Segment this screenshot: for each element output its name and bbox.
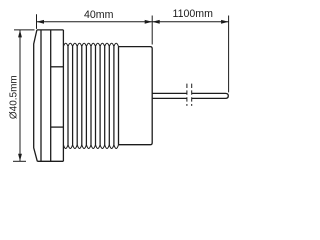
thread crest bottom zigzag — [63, 145, 118, 149]
groove bottom line — [51, 126, 64, 128]
face right edge — [40, 30, 42, 161]
thread crest top zigzag — [63, 43, 118, 46]
arrowhead bottom of diameter dim — [18, 154, 22, 162]
cable break dashed lines — [187, 84, 192, 106]
arrowhead right of 1100mm — [221, 20, 229, 24]
block top edge — [37, 29, 64, 31]
dim extension line at face left — [36, 14, 38, 29]
svg-text:Ø40.5mm: Ø40.5mm — [8, 75, 19, 119]
dim extension line at body right — [151, 16, 153, 45]
rear body — [119, 47, 153, 145]
collar right edge — [50, 30, 52, 161]
block right edge / thread start — [62, 30, 64, 161]
svg-text:1100mm: 1100mm — [172, 8, 213, 20]
dim extension line at cable end — [228, 16, 230, 93]
svg-text:40mm: 40mm — [84, 9, 114, 21]
diameter dim extension top — [14, 29, 35, 31]
arrowhead left of 40mm — [37, 20, 45, 24]
diameter dimension line — [19, 30, 21, 161]
cable right segment with rounded end — [192, 93, 229, 98]
diameter dim extension bottom — [13, 160, 26, 162]
40mm dimension line — [37, 21, 153, 23]
cable top line left segment — [152, 92, 187, 94]
block bottom edge — [37, 160, 63, 162]
groove top line — [51, 66, 64, 68]
cable bottom line left segment — [152, 97, 187, 99]
1100mm dimension line — [152, 21, 228, 23]
arrowhead left of 1100mm — [152, 20, 160, 24]
arrowhead right of 40mm — [145, 20, 153, 24]
arrowhead top of diameter dim — [18, 30, 22, 38]
sensor face left profile with chamfers — [34, 30, 38, 161]
thread vertical lines — [68, 47, 114, 145]
